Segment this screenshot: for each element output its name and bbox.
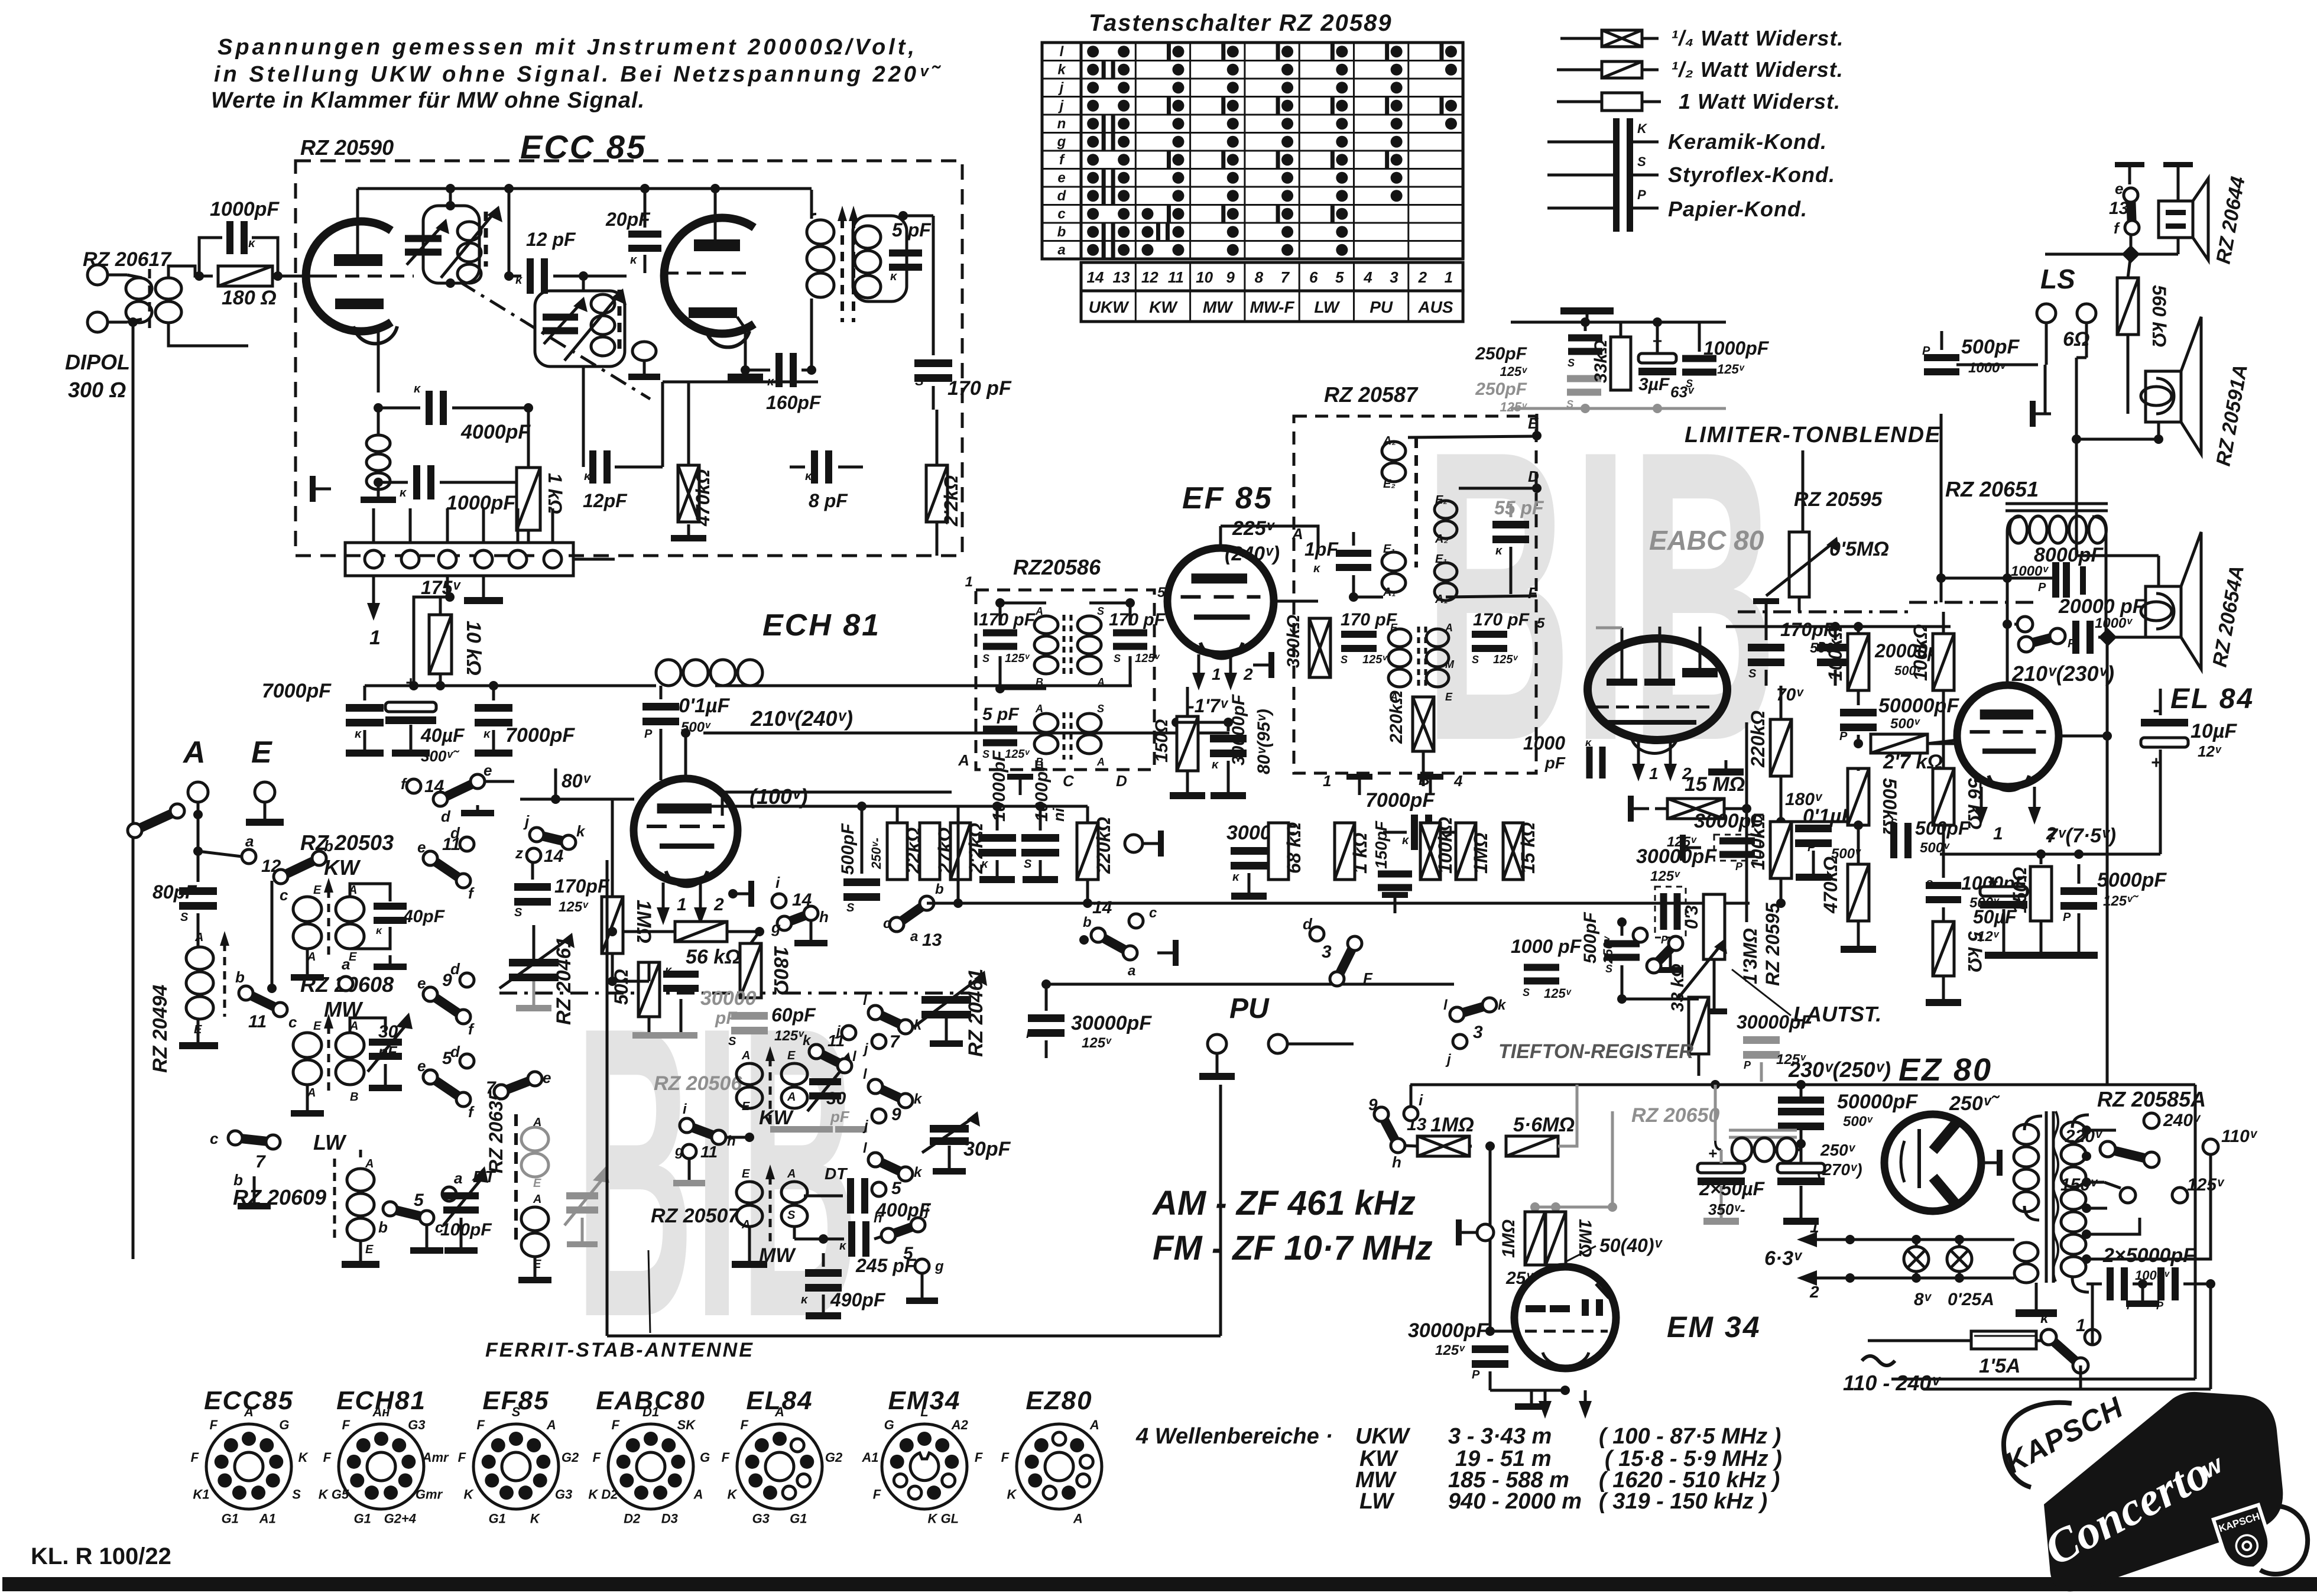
svg-text:14: 14: [1092, 898, 1112, 917]
capacitor 4000pF: [426, 391, 433, 425]
svg-text:d: d: [1303, 915, 1313, 933]
svg-text:1'5A: 1'5A: [1979, 1355, 2020, 1377]
svg-text:b: b: [1057, 224, 1066, 240]
svg-text:LW: LW: [1314, 298, 1341, 316]
resistor 1MΩ em34 a: [1525, 1212, 1545, 1265]
switch j-k top: [530, 828, 544, 842]
svg-text:G3: G3: [408, 1417, 425, 1432]
svg-text:11: 11: [700, 1143, 718, 1161]
svg-text:G3: G3: [752, 1511, 770, 1526]
svg-text:EL 84: EL 84: [2170, 683, 2254, 715]
IFT2 core: [1063, 712, 1066, 760]
svg-text:κ: κ: [1212, 758, 1219, 771]
svg-text:5 pF: 5 pF: [982, 705, 1019, 724]
RF tank1 core dashes: [484, 212, 488, 267]
svg-text:5 pF: 5 pF: [892, 219, 932, 241]
LS terminals: [2037, 304, 2056, 323]
svg-text:125ᵛ: 125ᵛ: [1493, 653, 1518, 666]
svg-text:LIMITER-TONBLENDE: LIMITER-TONBLENDE: [1685, 423, 1941, 447]
svg-text:EM 34: EM 34: [1667, 1310, 1761, 1344]
vertical grid wire em34: [1489, 1146, 1492, 1331]
resistor 68kΩ: [1268, 823, 1289, 880]
svg-text:κ: κ: [665, 964, 673, 977]
svg-text:in Stellung UKW ohne Signal. B: in Stellung UKW ohne Signal. Bei Netzspa…: [214, 62, 942, 87]
capacitor 20000pF EABC: [1817, 644, 1854, 651]
wire 180Ω to ECC85 grid: [272, 275, 319, 278]
svg-text:G: G: [279, 1417, 289, 1432]
svg-text:D3: D3: [661, 1511, 678, 1526]
svg-text:A₂: A₂: [1435, 533, 1448, 546]
svg-text:P: P: [2038, 581, 2046, 594]
svg-text:M: M: [1445, 658, 1455, 670]
svg-text:G3: G3: [555, 1487, 572, 1502]
svg-text:EZ80: EZ80: [1026, 1386, 1092, 1415]
speaker RZ20644 tweeter: [2159, 201, 2193, 238]
svg-text:+: +: [1708, 1144, 1717, 1162]
svg-text:940 - 2000 m: 940 - 2000 m: [1448, 1489, 1582, 1514]
top plate antenna: [1560, 307, 1614, 314]
svg-text:ECH 81: ECH 81: [762, 608, 881, 643]
node c switch 13 a-b: [890, 917, 904, 932]
tuning gang RZ20461 AM antenna: [509, 959, 559, 966]
wire ECH81 100V lead: [722, 792, 952, 816]
svg-text:56 kΩ: 56 kΩ: [686, 946, 741, 968]
svg-text:G1: G1: [222, 1511, 239, 1526]
capacitor 5000pF EL84: [2060, 887, 2097, 895]
svg-text:κ: κ: [376, 924, 382, 936]
svg-text:250pF: 250pF: [1475, 379, 1527, 399]
switch 14 b-a c mid: [1079, 935, 1089, 945]
svg-text:K D2: K D2: [588, 1487, 618, 1502]
svg-text:RZ 20595: RZ 20595: [1762, 902, 1783, 986]
capacitor 170pF det1: [1341, 631, 1377, 638]
speaker RZ20591A mid: [2146, 371, 2181, 422]
svg-text:E: E: [365, 1243, 374, 1256]
electrolytic 40µF 300V: [385, 702, 436, 712]
svg-text:110 - 240ᵛ: 110 - 240ᵛ: [1843, 1371, 1941, 1395]
svg-text:0'25A: 0'25A: [1948, 1290, 1994, 1309]
svg-text:S: S: [1568, 357, 1575, 369]
grid dash-dot line to EL84: [1909, 601, 2038, 604]
tube EM34: [1514, 1267, 1616, 1368]
resistor 220kΩ right: [1770, 719, 1792, 776]
leader line ferrite antenna: [648, 1250, 650, 1333]
svg-text:G2: G2: [825, 1450, 843, 1465]
svg-text:P: P: [1839, 730, 1848, 743]
svg-text:50Ω: 50Ω: [611, 969, 632, 1005]
resistor 56kΩ right: [1933, 768, 1954, 825]
output transformer RZ20651 core: [2006, 502, 2108, 505]
resistor 180Ω cathode: [740, 943, 761, 998]
tube ECC85 triode 1: [306, 222, 391, 332]
svg-text:K1: K1: [193, 1487, 209, 1502]
switch e-11-f KW: [423, 851, 437, 865]
svg-text:F: F: [342, 1417, 350, 1432]
svg-text:20000 pF: 20000 pF: [2058, 595, 2146, 618]
svg-text:κ: κ: [805, 470, 813, 483]
svg-text:2×5000pF: 2×5000pF: [2102, 1244, 2196, 1267]
svg-text:1 kΩ: 1 kΩ: [1349, 833, 1371, 874]
svg-text:K: K: [1637, 121, 1648, 136]
svg-text:40pF: 40pF: [403, 907, 445, 926]
svg-text:S: S: [787, 1209, 796, 1222]
svg-text:A: A: [194, 931, 203, 944]
wire ECH81 anode: [684, 733, 687, 778]
svg-text:210ᵛ(230ᵛ): 210ᵛ(230ᵛ): [2011, 661, 2114, 686]
svg-text:κ: κ: [400, 486, 407, 499]
switch column l-k 9: [868, 1079, 882, 1094]
svg-text:c: c: [210, 1130, 219, 1147]
svg-text:250pF: 250pF: [1475, 344, 1527, 364]
svg-text:a: a: [910, 929, 918, 945]
svg-text:125ᵛ: 125ᵛ: [1005, 748, 1030, 761]
svg-text:210ᵛ(240ᵛ): 210ᵛ(240ᵛ): [750, 706, 853, 731]
osc coupling loop: [632, 342, 656, 361]
svg-text:κ: κ: [1313, 562, 1321, 575]
svg-text:d: d: [1057, 188, 1067, 204]
svg-text:250ᵛ-: 250ᵛ-: [869, 838, 884, 870]
switch e-5-f lower: [423, 1070, 437, 1084]
svg-text:4000pF: 4000pF: [460, 421, 531, 443]
svg-text:F: F: [740, 1417, 748, 1432]
bus 210V: [703, 732, 1229, 735]
node d MW: [460, 973, 474, 987]
node z 14: [527, 848, 541, 862]
svg-text:K: K: [728, 1487, 738, 1502]
KAPSCH shield emblem: [2214, 1505, 2277, 1576]
svg-text:k: k: [576, 822, 586, 840]
svg-text:LS: LS: [2040, 264, 2075, 294]
svg-text:P: P: [1735, 861, 1743, 872]
svg-text:3: 3: [1473, 1023, 1483, 1042]
svg-text:RZ 20609: RZ 20609: [233, 1185, 326, 1209]
svg-text:k: k: [1057, 62, 1066, 78]
svg-text:6: 6: [1309, 268, 1318, 286]
svg-text:10 kΩ: 10 kΩ: [462, 621, 485, 676]
capacitor 50000pF coupling: [1840, 709, 1877, 716]
svg-text:P: P: [1744, 1059, 1751, 1071]
speaker RZ20654A lower: [2146, 586, 2181, 637]
svg-text:S: S: [1024, 858, 1032, 871]
ground 470k: [687, 524, 690, 535]
svg-text:FM - ZF 10·7 MHz: FM - ZF 10·7 MHz: [1153, 1229, 1433, 1267]
svg-text:40µF: 40µF: [420, 725, 465, 746]
output transformer primary: [2007, 517, 2021, 578]
svg-text:RZ 20461: RZ 20461: [965, 969, 987, 1057]
wire bottom bus ECC85: [663, 381, 818, 384]
resistor 100kΩ right low: [1770, 822, 1792, 878]
core RZ20587 upper: [1414, 437, 1418, 567]
svg-text:ni: ni: [1050, 807, 1067, 822]
svg-text:b: b: [378, 1218, 388, 1236]
svg-text:g: g: [674, 1143, 684, 1159]
coil LW RZ20609: [359, 1150, 362, 1157]
svg-text:14: 14: [1087, 268, 1104, 286]
resistor 470kΩ right: [1848, 864, 1869, 921]
svg-text:30000: 30000: [700, 987, 757, 1010]
legend 1 watt resistor: [1557, 100, 1602, 103]
resistor 100kΩ A: [1848, 634, 1869, 690]
coil RZ20494: [197, 913, 200, 946]
resistor 5kΩ: [1933, 922, 1954, 976]
svg-text:0'3: 0'3: [1682, 905, 1702, 929]
resistor 1MΩ grid: [602, 897, 623, 953]
EZ80 plate lead: [1981, 1162, 1997, 1164]
svg-text:S: S: [1890, 817, 1897, 829]
svg-text:2: 2: [713, 895, 724, 914]
svg-text:250ᵛ: 250ᵛ: [1820, 1141, 1856, 1159]
tap 220V with switch: [2100, 1141, 2115, 1157]
wire EM34 feed: [1611, 1111, 1614, 1207]
osc tank2 core dashes: [618, 290, 622, 355]
svg-text:13: 13: [922, 930, 942, 950]
transformer RZ20585A primary winding: [2024, 1116, 2042, 1130]
switch e-g-f MW: [423, 987, 437, 1001]
svg-text:500ᵛ: 500ᵛ: [1843, 1114, 1873, 1130]
osc tank2 trimmer: [543, 314, 578, 321]
legend 1/4 watt resistor: [1560, 37, 1602, 40]
svg-text:2'2kΩ: 2'2kΩ: [940, 475, 962, 527]
svg-text:1000pF: 1000pF: [210, 198, 280, 220]
svg-text:500pF: 500pF: [1961, 336, 2020, 358]
antenna transformer secondary coil: [155, 278, 181, 299]
svg-text:100kΩ: 100kΩ: [1825, 624, 1846, 681]
capacitor 30000pF cathode: [663, 971, 699, 978]
EF85 screen wire to 5: [1274, 600, 1318, 603]
svg-text:68 kΩ: 68 kΩ: [1283, 822, 1304, 874]
svg-text:E: E: [787, 1049, 796, 1062]
svg-text:a: a: [454, 1169, 462, 1187]
resistor 1kΩ: [517, 468, 540, 530]
svg-text:6·3ᵛ: 6·3ᵛ: [1764, 1247, 1803, 1270]
tube ECC85 triode 2: [664, 218, 754, 333]
dashed box RZ20590 UKW tuner: [296, 161, 962, 556]
svg-text:F: F: [191, 1450, 199, 1465]
svg-text:15 MΩ: 15 MΩ: [1685, 773, 1745, 796]
svg-text:180 Ω: 180 Ω: [222, 287, 277, 309]
svg-text:n: n: [1057, 116, 1066, 132]
svg-text:P: P: [1472, 1368, 1480, 1381]
svg-text:100kΩ: 100kΩ: [1747, 813, 1768, 870]
svg-text:4: 4: [1453, 772, 1463, 790]
tube EZ80: [1884, 1114, 1981, 1211]
svg-text:h: h: [819, 908, 829, 926]
svg-text:125ᵛ: 125ᵛ: [1082, 1035, 1112, 1051]
svg-text:TIEFTON-REGISTER: TIEFTON-REGISTER: [1498, 1040, 1693, 1063]
resistor 220kΩ det: [1413, 697, 1434, 751]
svg-text:Keramik-Kond.: Keramik-Kond.: [1668, 129, 1827, 154]
svg-text:κ: κ: [890, 270, 898, 283]
wire secondary to 180Ω network: [168, 266, 213, 277]
svg-text:κ: κ: [2040, 1310, 2049, 1326]
svg-text:A: A: [533, 1193, 541, 1206]
svg-text:125ᵛ: 125ᵛ: [1650, 868, 1680, 884]
resistor 2.2kΩ right: [926, 465, 947, 522]
svg-text:A: A: [546, 1417, 556, 1432]
svg-text:1MΩ: 1MΩ: [1470, 833, 1491, 874]
svg-text:S: S: [1686, 378, 1693, 390]
svg-text:1000ᵛ: 1000ᵛ: [2095, 615, 2133, 631]
bus under strip: [414, 685, 656, 687]
svg-text:RZ20586: RZ20586: [1013, 555, 1101, 579]
gray grounds osc: [770, 1126, 802, 1133]
svg-text:0'1µF: 0'1µF: [679, 695, 730, 717]
resistor 27kΩ: [920, 823, 940, 880]
svg-text:10µF: 10µF: [2191, 720, 2237, 742]
svg-text:1000pF: 1000pF: [446, 492, 516, 514]
electrolytic 10µF 12V EL84 cathode: [2141, 719, 2188, 726]
svg-text:EABC 80: EABC 80: [1649, 525, 1764, 556]
gang dash-dot line: [499, 992, 969, 995]
switch e-13-f speaker: [2124, 188, 2138, 202]
svg-text:F: F: [476, 1417, 485, 1432]
svg-text:P: P: [1637, 187, 1646, 202]
svg-text:1: 1: [1810, 1218, 1819, 1236]
svg-text:500ᵛ: 500ᵛ: [1890, 716, 1920, 732]
svg-text:F: F: [611, 1417, 619, 1432]
svg-text:pF: pF: [715, 1008, 737, 1028]
svg-text:RZ 20507: RZ 20507: [651, 1205, 740, 1227]
switch 7-e ferrite: [494, 1085, 508, 1099]
svg-text:1: 1: [677, 895, 687, 914]
svg-text:E: E: [533, 1177, 541, 1190]
svg-text:220ᵛ: 220ᵛ: [2065, 1127, 2103, 1146]
svg-text:125ᵛ: 125ᵛ: [559, 899, 589, 915]
arrows under ECH81: [662, 883, 665, 910]
svg-text:7000pF: 7000pF: [262, 680, 332, 702]
svg-text:F: F: [873, 1487, 881, 1502]
osc tank2 box: [535, 291, 625, 366]
transformer center tap ground: [2035, 1283, 2038, 1309]
svg-text:1MΩ: 1MΩ: [632, 900, 655, 943]
tuning gang RZ20461 osc: [921, 996, 971, 1004]
svg-text:170pF: 170pF: [554, 875, 610, 897]
svg-text:125ᵛ: 125ᵛ: [1362, 653, 1388, 666]
resistor 500kΩ: [1848, 768, 1869, 825]
ferrite rod antenna coils: [514, 1114, 518, 1241]
svg-text:1: 1: [1649, 764, 1659, 783]
svg-text:300 Ω: 300 Ω: [68, 378, 126, 402]
svg-text:a: a: [342, 955, 350, 973]
svg-text:k: k: [914, 1091, 923, 1107]
power rail 230V: [1410, 1084, 2107, 1086]
resistor 50Ω: [638, 962, 660, 1017]
svg-text:RZ 20503: RZ 20503: [300, 831, 394, 855]
dipole terminal upper: [87, 265, 108, 285]
ratio cluster wires: [1511, 321, 1726, 324]
svg-text:A: A: [1096, 756, 1105, 768]
svg-text:¹/₄ Watt Widerst.: ¹/₄ Watt Widerst.: [1671, 26, 1844, 50]
svg-text:κ: κ: [839, 1240, 847, 1253]
svg-text:K: K: [298, 1450, 309, 1465]
wire to mid speaker: [2075, 358, 2078, 439]
svg-text:9: 9: [891, 1105, 901, 1124]
svg-text:470kΩ: 470kΩ: [1820, 857, 1841, 914]
svg-text:h: h: [1392, 1153, 1401, 1171]
svg-text:( 319 - 150 kHz ): ( 319 - 150 kHz ): [1599, 1489, 1767, 1514]
tube EF85: [1167, 548, 1274, 654]
svg-text:A₁: A₁: [1383, 586, 1396, 599]
capacitor 490pF: [805, 1269, 842, 1277]
terminal with plate: [1125, 835, 1143, 852]
switch l-k tiefton: [1450, 1007, 1464, 1021]
KAPSCH logo swash bottom-right: [2260, 1506, 2308, 1574]
capacitor 30000pF EF85: [1210, 735, 1247, 742]
svg-text:5: 5: [891, 1179, 902, 1198]
capacitor 160pF: [775, 353, 783, 387]
node a MW: [339, 977, 353, 991]
svg-text:10: 10: [1196, 268, 1213, 286]
tonblende dash-dot wire: [1738, 611, 1909, 614]
svg-text:12 pF: 12 pF: [526, 229, 576, 250]
svg-text:c: c: [288, 1013, 297, 1031]
chassis tap right of ECH81: [728, 889, 738, 898]
svg-text:170 pF: 170 pF: [1341, 610, 1397, 630]
capacitor 50000pF EZ80: [1778, 1097, 1824, 1104]
svg-text:50(40)ᵛ: 50(40)ᵛ: [1599, 1235, 1663, 1256]
svg-text:F: F: [975, 1450, 983, 1465]
svg-text:F: F: [1528, 584, 1538, 602]
svg-text:560 kΩ: 560 kΩ: [2149, 285, 2170, 347]
resistor 22kΩ: [887, 823, 907, 880]
svg-text:490pF: 490pF: [830, 1289, 886, 1310]
svg-text:5: 5: [414, 1190, 424, 1210]
svg-text:9: 9: [1226, 268, 1235, 286]
transformer secondary winding: [2072, 1115, 2089, 1128]
svg-text:F: F: [209, 1417, 218, 1432]
svg-text:175ᵛ: 175ᵛ: [421, 577, 461, 598]
switch f-14-d top mid: [407, 779, 421, 793]
svg-text:A: A: [1089, 1417, 1099, 1432]
IF transformer core arrows: [841, 219, 844, 322]
svg-text:i: i: [1419, 1091, 1423, 1109]
svg-text:a: a: [245, 832, 254, 850]
svg-text:220kΩ: 220kΩ: [1093, 817, 1114, 874]
svg-text:12ᵛ: 12ᵛ: [1977, 929, 2000, 945]
svg-text:3 - 3·43 m: 3 - 3·43 m: [1448, 1424, 1552, 1449]
svg-text:1: 1: [1993, 824, 2003, 844]
svg-text:13: 13: [1113, 268, 1130, 286]
svg-text:E: E: [251, 735, 272, 770]
svg-text:A: A: [774, 1404, 784, 1419]
ground plate mid: [2036, 413, 2051, 416]
svg-text:1000: 1000: [1523, 732, 1565, 754]
trimmer 30pF black: [930, 1125, 969, 1133]
svg-text:S: S: [1341, 654, 1348, 666]
svg-text:Styroflex-Kond.: Styroflex-Kond.: [1668, 163, 1835, 187]
svg-text:PU: PU: [1370, 298, 1393, 316]
svg-text:125ᵛ: 125ᵛ: [2187, 1175, 2225, 1195]
switch 11-c b: [239, 986, 253, 1000]
svg-text:κ: κ: [1585, 737, 1592, 748]
capacitor 30000pF pu: [1028, 1014, 1065, 1022]
triode2 cathode lead: [737, 317, 745, 370]
svg-text:C: C: [1063, 772, 1075, 790]
EL84 screen wire: [2059, 735, 2107, 738]
resistor 2.7kΩ: [1871, 734, 1927, 753]
svg-text:K G5: K G5: [319, 1487, 349, 1502]
fuse 1.5A: [1868, 1339, 1971, 1342]
IF transformer secondary / 5pF tank: [853, 216, 907, 301]
arrows under EF85: [1198, 654, 1200, 675]
svg-text:1000 pF: 1000 pF: [1511, 936, 1582, 957]
pinout EF85 socket: [473, 1424, 559, 1509]
svg-text:P: P: [2068, 637, 2076, 650]
svg-text:G: G: [700, 1450, 710, 1465]
svg-text:EZ 80: EZ 80: [1899, 1052, 1993, 1088]
svg-text:1 Watt Widerst.: 1 Watt Widerst.: [1679, 89, 1841, 113]
tube EL84: [1957, 685, 2059, 787]
